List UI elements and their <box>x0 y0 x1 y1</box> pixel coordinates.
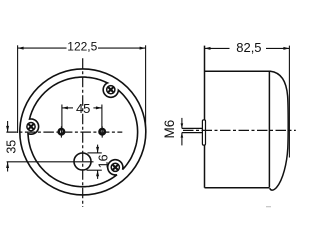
lens joint line <box>268 71 270 187</box>
front view: outer flange circle <box>20 69 146 195</box>
svg-text:122,5: 122,5 <box>67 40 97 54</box>
svg-text:M6: M6 <box>162 120 177 139</box>
mounting screw 3 <box>111 163 119 171</box>
svg-text:16: 16 <box>96 154 110 168</box>
small mounting hole left <box>59 126 64 137</box>
mounting screw 2 <box>107 86 115 94</box>
svg-text:35: 35 <box>4 140 18 154</box>
cable hole dia 16 <box>74 153 91 170</box>
small mounting hole right <box>100 126 105 137</box>
dim 82,5 <box>205 46 290 158</box>
front view: inner flange edge with three keyhole pockets <box>28 77 138 187</box>
vertical centerline (front view) <box>82 58 84 207</box>
hole centre extension line y=161.8 (for dim 35 and hole 16) <box>7 161 94 163</box>
horizontal centerline (front view) <box>6 131 122 133</box>
washer plate <box>202 120 205 145</box>
svg-text:45: 45 <box>76 101 90 116</box>
dim 45 <box>62 105 102 129</box>
mounting screw 1 <box>27 123 35 131</box>
dim 35 <box>7 121 9 172</box>
body left edge + top + bottom <box>205 46 271 188</box>
dim 122,5 <box>18 45 146 133</box>
M6 stud <box>182 128 203 132</box>
side view centerline <box>183 129 296 131</box>
svg-text:82,5: 82,5 <box>236 40 261 55</box>
dim M6 <box>181 118 183 145</box>
faint scan mark <box>266 206 271 207</box>
dim 16 <box>87 145 102 179</box>
lens dome <box>270 71 288 190</box>
side view body <box>205 46 289 191</box>
